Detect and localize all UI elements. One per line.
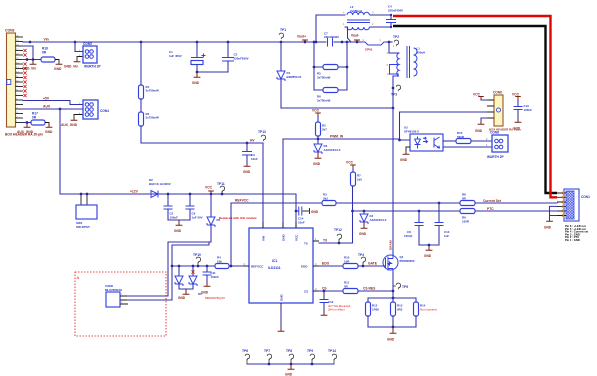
CON5 pin 1 circles [85, 50, 89, 54]
diode D2 [151, 191, 158, 198]
svg-text:TP14: TP14 [328, 349, 336, 353]
svg-text:TP13: TP13 [258, 130, 266, 134]
svg-text:TP1: TP1 [280, 28, 286, 32]
CON3 no-connect X marks [23, 49, 26, 52]
node junction (347,67) [346, 66, 349, 69]
svg-text:GND: GND [285, 373, 293, 376]
node junction (419,211) [418, 210, 421, 213]
power AUX_GND symbol at R17 input [26, 123, 28, 125]
svg-text:AUX_GND: AUX_GND [17, 130, 34, 134]
svg-text:VCC: VCC [312, 109, 320, 113]
node junction (198,266) [197, 265, 200, 268]
resistor R14 (vertical) [415, 298, 417, 302]
IC pin stubs [243, 222, 319, 309]
resistor loop right vertical wire [346, 42, 348, 90]
svg-text:REFVCC: REFVCC [235, 199, 249, 203]
ground at C11 [204, 283, 211, 286]
svg-text:TP9: TP9 [307, 349, 313, 353]
svg-text:GND: GND [475, 129, 483, 133]
node junction (291,364) [290, 363, 293, 366]
svg-text:TP12: TP12 [334, 228, 342, 232]
svg-text:AUX_GND: AUX_GND [61, 123, 78, 127]
wire D5 to REFVCC row [210, 225, 212, 242]
wire L2 pin2 to C4 bottom [370, 26, 391, 28]
ground at U2 [403, 151, 410, 154]
IC1 GND pin wire [280, 309, 282, 328]
node junction (247,143) [246, 142, 249, 145]
resistor R9 inline [460, 209, 475, 214]
svg-text:TP5: TP5 [402, 285, 408, 289]
svg-text:GND: GND [313, 162, 321, 166]
connector CON8 [492, 135, 508, 152]
wire C5 C6 ground link [168, 219, 190, 221]
svg-text:GND: GND [280, 294, 284, 302]
optocoupler U2 [410, 134, 443, 151]
wire CS from IC [319, 290, 343, 292]
resistor R8 inline [460, 201, 475, 206]
ground at TP row [290, 364, 292, 366]
resistor R13 (vertical) [392, 298, 394, 302]
svg-text:1k0: 1k0 [357, 177, 362, 181]
svg-text:VCC: VCC [473, 93, 481, 97]
node junction (87,194) [86, 193, 89, 196]
wire opto feed from PWM corner [400, 112, 411, 140]
wire CON1 GND bracket pins 1,3 [550, 206, 558, 218]
resistor R6 [323, 88, 338, 93]
CON5 pin2 to ground [77, 57, 83, 59]
transistor Q1 MOSFET [383, 255, 398, 270]
node junction (141,42) [140, 41, 143, 44]
svg-text:600uH: 600uH [417, 50, 426, 54]
connector CON2 body [106, 292, 120, 307]
connector CON4 [83, 100, 98, 119]
svg-text:GND_Vin: GND_Vin [22, 67, 36, 71]
wire R16 input row [23, 59, 41, 61]
resistor R2a 2k7 (vertical) [317, 116, 319, 122]
svg-text:GATE: GATE [368, 262, 378, 266]
svg-text:GND: GND [243, 170, 251, 174]
svg-text:EDO: EDO [322, 262, 330, 266]
svg-text:TP8: TP8 [286, 349, 292, 353]
node junction (357,42) [356, 41, 359, 44]
svg-text:GND: GND [311, 210, 319, 214]
CON4 pin 2 circles [85, 108, 89, 112]
diode D6a zener [178, 266, 180, 276]
svg-text:Not mounted: Not mounted [420, 307, 437, 311]
wire thick red LED+ output [393, 16, 557, 197]
L1 core lines [407, 46, 410, 78]
wire L2 pin1 to rail [345, 27, 351, 42]
wire pin3 down-link [23, 46, 33, 60]
svg-text:GND: GND [387, 338, 395, 342]
CON4 pin 1 circles [85, 103, 89, 107]
diode D3 zener [317, 139, 319, 144]
wire D6 ground link [179, 284, 193, 289]
svg-text:+12V: +12V [130, 190, 139, 194]
connector CON6 body [494, 95, 503, 126]
test point TP2 [394, 40, 399, 46]
capacitor C8 [418, 211, 420, 222]
test point TP10 [196, 257, 201, 263]
svg-text:3x750mW: 3x750mW [317, 98, 331, 102]
svg-text:Vout+: Vout+ [297, 35, 306, 39]
node junction (393,108) [392, 107, 395, 110]
svg-text:DRAIN: DRAIN [389, 239, 393, 250]
wire top Vin rail [23, 41, 362, 43]
node junction (312,364) [311, 363, 314, 366]
resistor R16 [41, 57, 55, 62]
svg-text:VCC: VCC [295, 234, 299, 241]
wire CP01 to transformer node [387, 41, 392, 43]
CON1 pin description text [565, 224, 588, 242]
svg-text:REFVCC: REFVCC [251, 265, 264, 269]
svg-text:2k4 no effect: 2k4 no effect [328, 308, 345, 312]
wire pin20 to R17 [23, 122, 31, 124]
wire REFVCC pin row [172, 265, 243, 267]
CON4 pin3 to AUX_GND [74, 115, 83, 118]
svg-text:GND: GND [400, 158, 408, 162]
wire AUX pin17 to CON4 pin2 [23, 108, 83, 110]
svg-text:100nF: 100nF [404, 234, 413, 238]
CON3 pin stubs (pins 1-20) [16, 37, 24, 123]
test point TP4 [361, 257, 366, 263]
test point TP5 [396, 283, 401, 289]
resistor R7 pullup (vertical) [352, 168, 354, 172]
ground at C8/C13 [428, 245, 430, 247]
test point TP3 [396, 85, 401, 91]
svg-text:WURTH 2P: WURTH 2P [487, 155, 505, 159]
capacitor C7 inline [328, 38, 333, 47]
svg-text:100R: 100R [462, 219, 470, 223]
test point TP11 [220, 186, 225, 192]
node junction (296,211) [295, 210, 298, 213]
wire TX/PTC line [353, 210, 557, 212]
svg-text:10nF: 10nF [251, 157, 258, 161]
svg-text:CON3: CON3 [5, 29, 15, 33]
L1 winding taps [390, 65, 400, 77]
connector CON5 [83, 46, 97, 63]
capacitor C13 [438, 203, 440, 222]
CON6 pin stubs [487, 100, 494, 118]
test point TP7 [267, 354, 272, 360]
svg-text:SFH6156-3: SFH6156-3 [404, 129, 419, 133]
svg-text:CON6: CON6 [493, 91, 502, 95]
wire REFVCC / Current Set line [231, 202, 557, 204]
node junction (281,42) [280, 41, 283, 44]
svg-text:560R: 560R [457, 135, 465, 139]
node junction (314,42) [313, 41, 316, 44]
node junction (318,139) [317, 138, 320, 141]
svg-text:Vin: Vin [44, 38, 49, 42]
svg-text:MLX2656/3G: MLX2656/3G [105, 288, 123, 292]
svg-text:100nF: 100nF [524, 108, 533, 112]
node junction (33,59.5) [32, 58, 35, 61]
node junction (324,291) [323, 290, 326, 293]
node junction (393,298) [392, 297, 395, 300]
test point TP8 [289, 354, 294, 360]
wire R15 to CON8 pin2 [471, 140, 492, 142]
ground at D4 [363, 222, 365, 225]
L1 right winding [414, 48, 418, 76]
U2 cathode to ground [406, 147, 410, 151]
ground at C1/C2 [196, 72, 198, 74]
svg-text:3x750mW: 3x750mW [146, 89, 160, 93]
capacitor C3 [246, 143, 248, 152]
svg-text:GND: GND [45, 130, 53, 134]
capacitor C2 [227, 42, 229, 58]
svg-text:GND: GND [513, 127, 521, 131]
ground at IC1 [278, 328, 285, 331]
svg-text:BZM55C15: BZM55C15 [287, 75, 302, 79]
svg-text:AUX: AUX [43, 105, 51, 109]
svg-text:GND: GND [544, 226, 552, 230]
wire rail drop to CON5 pin1 [75, 42, 83, 52]
wire +5V pin15 to CON4 pin1 [23, 101, 83, 105]
wire CON2 line A [127, 242, 211, 296]
svg-text:VIN: VIN [262, 236, 266, 241]
svg-text:0R: 0R [32, 116, 37, 120]
capacitor C6 [189, 194, 191, 206]
L2 core lines [347, 20, 370, 23]
svg-text:BGF1S 1A/400V: BGF1S 1A/400V [149, 182, 171, 186]
ground at C5/C6 [178, 220, 180, 222]
svg-text:1nF: 1nF [444, 234, 449, 238]
capacitor C4 [386, 20, 396, 23]
svg-text:IPD60R360: IPD60R360 [400, 259, 415, 263]
svg-text:VCC: VCC [346, 161, 354, 165]
svg-text:TX: TX [304, 242, 308, 246]
wire sense resistor rail top [368, 297, 416, 299]
node junction (305,42) [304, 41, 307, 44]
CON2 pin stubs [120, 296, 128, 304]
svg-text:MRD06V6QUO: MRD06V6QUO [205, 296, 226, 300]
CON5 pin 2 circles [85, 55, 89, 59]
wire R17 to ground [45, 123, 49, 125]
wire Q1 source down [392, 272, 394, 298]
svg-text:Pin 1 : GND: Pin 1 : GND [565, 238, 580, 242]
ground at C3 [244, 163, 251, 166]
resistor R4 inline [215, 264, 229, 269]
wire drain vertical [392, 108, 394, 255]
test point TP13 [261, 135, 266, 141]
resistor R3 inline [322, 201, 336, 206]
wire EDO from IC [319, 265, 343, 267]
svg-text:CS RES: CS RES [363, 287, 376, 291]
current probe CP01 loop [362, 42, 387, 45]
wire PWM to IC pin [282, 139, 284, 228]
CON4 pin 3 circles [85, 113, 89, 117]
node junction (228,42) [227, 41, 230, 44]
ground at R16 [56, 61, 63, 64]
svg-text:GND: GND [192, 81, 200, 85]
resistor R15 [456, 139, 471, 144]
connector CON1 outer body [564, 189, 579, 221]
ground at C12 [321, 312, 328, 315]
wire U2 emitter to CON8 pin1 [443, 146, 492, 148]
svg-text:TP11: TP11 [217, 182, 225, 186]
power GND_Vin symbol at CON5 [74, 59, 81, 62]
svg-text:VCC: VCC [205, 186, 213, 190]
node junction (269,364) [268, 363, 271, 366]
node junction (172,266) [171, 265, 174, 268]
svg-text:TP3: TP3 [391, 93, 397, 97]
svg-text:1uF 50V: 1uF 50V [192, 215, 203, 219]
svg-text:GND_Vin: GND_Vin [64, 65, 78, 69]
wire gate line [358, 265, 385, 267]
diode D5 zener [210, 194, 212, 217]
svg-text:PTC: PTC [487, 207, 494, 211]
wire U2 collector to R15 [443, 140, 456, 142]
wire CON6 pin3 line [400, 111, 488, 113]
svg-text:220nF450V: 220nF450V [388, 8, 403, 12]
wire C8 C13 ground link [419, 244, 439, 246]
node junction (353,211) [351, 210, 354, 213]
test point row wire [247, 363, 334, 365]
resistor R2 (vertical) [139, 112, 144, 126]
switch SW1 body [76, 205, 97, 219]
svg-text:VCC: VCC [512, 93, 520, 97]
node junction (429,245) [428, 244, 431, 247]
node junction (190,194) [189, 193, 192, 196]
svg-text:CON4: CON4 [100, 109, 109, 113]
wire VCC rail from switch [60, 194, 296, 228]
svg-text:1uF 450V: 1uF 450V [169, 54, 182, 58]
CON6 pin4 to ground [481, 118, 487, 121]
svg-text:3x750mW: 3x750mW [146, 116, 160, 120]
wire L1 bottom to drain line [392, 76, 394, 108]
svg-text:1R00: 1R00 [372, 307, 379, 311]
wire D1 bottom to drain line [281, 107, 393, 109]
switch SW1 pins [81, 194, 87, 205]
CON1 pin stubs [557, 193, 566, 216]
resistor R10 [343, 264, 358, 269]
node junction (168,194) [167, 193, 170, 196]
CON8 pin 1 circles [495, 145, 499, 149]
wire R16 to ground [55, 60, 59, 62]
svg-text:Vout-: Vout- [351, 34, 359, 38]
svg-text:0R: 0R [42, 51, 47, 55]
CON1 hatched insert [566, 191, 574, 219]
svg-text:2k2: 2k2 [323, 196, 328, 200]
svg-text:CON5: CON5 [83, 42, 92, 46]
wire L2 pin3 to C4 [370, 14, 391, 16]
wire thick black LED- output [393, 26, 557, 193]
svg-text:SW-DPST: SW-DPST [76, 225, 90, 229]
svg-text:220nF630V: 220nF630V [234, 56, 249, 60]
svg-text:EDO: EDO [301, 265, 308, 269]
svg-text:GND: GND [178, 296, 186, 300]
node junction (393,88) [392, 87, 395, 90]
wire Vin pin2 to top rail [23, 41, 30, 43]
svg-text:+5V: +5V [43, 97, 50, 101]
wire TX from IC [319, 212, 353, 244]
svg-text:2x680uH: 2x680uH [350, 9, 362, 13]
diode D1 zener [280, 42, 282, 71]
node junction (314,67) [313, 66, 316, 69]
svg-text:GND: GND [201, 291, 209, 295]
node junction (391,27) [390, 26, 392, 28]
wire AUX down to switch rail [59, 109, 61, 194]
ground at CON1 [546, 218, 553, 221]
diode D4 zener [363, 211, 365, 214]
svg-text:3x750mW: 3x750mW [317, 75, 331, 79]
CON8 pin 2 circles [495, 139, 499, 143]
node junction (342,42) [341, 41, 344, 44]
inductor L2 common mode choke [316, 15, 345, 42]
node junction (231,266) [230, 265, 233, 268]
no-connect X on D6b [191, 270, 194, 273]
node junction (339,243) [338, 242, 341, 245]
connector CON3 body [7, 33, 16, 127]
resistor R11 [343, 289, 358, 294]
test point TP6 [245, 354, 250, 360]
svg-text:GND: GND [174, 229, 182, 233]
capacitor C11 [206, 266, 208, 272]
power AUX_GND symbol at CON4 [71, 117, 78, 120]
svg-text:TP10: TP10 [193, 253, 201, 257]
svg-text:TP7: TP7 [264, 349, 270, 353]
node junction (393,291) [392, 290, 395, 293]
svg-text:AZ23C3V3-Z: AZ23C3V3-Z [324, 148, 341, 152]
svg-text:GND: GND [54, 67, 62, 71]
resistor R1 (vertical) [140, 42, 142, 85]
test point TP14 [332, 354, 337, 360]
svg-text:Current Set: Current Set [483, 199, 502, 203]
node junction (393,327) [392, 326, 395, 329]
capacitor C14 [296, 210, 298, 212]
node junction (399.5,140) [398, 139, 401, 142]
power bar at C14 [309, 208, 311, 214]
svg-text:TP6: TP6 [242, 349, 248, 353]
svg-text:WURTH 2P: WURTH 2P [84, 65, 102, 69]
svg-text:PWM_IN: PWM_IN [330, 135, 344, 139]
diode D6b zener (not mounted) [192, 266, 194, 276]
CON6 polarization notch [497, 108, 501, 112]
IC U1 ILD2111 body [249, 228, 313, 303]
capacitor C10 [517, 100, 519, 107]
svg-text:220nF630V: 220nF630V [324, 35, 339, 39]
svg-text:CON1: CON1 [581, 195, 590, 199]
svg-text:AZ23C3V3-Z: AZ23C3V3-Z [370, 218, 387, 222]
svg-text:HV: HV [250, 139, 255, 143]
svg-text:100nF: 100nF [170, 215, 179, 219]
node junction (193,266) [192, 265, 195, 268]
power port VCC at CON6 [481, 99, 487, 102]
svg-text:TP4: TP4 [358, 253, 364, 257]
node junction (27,59.5) [26, 58, 29, 61]
test point TP9 [310, 354, 315, 360]
wire PWM_IN line [283, 139, 400, 140]
svg-text:TP2: TP2 [393, 35, 399, 39]
wire CON2 line B [127, 243, 209, 301]
test point TP1 [279, 33, 284, 39]
svg-text:10k: 10k [217, 259, 222, 263]
ground at C10 [515, 119, 522, 122]
ground at CON6 [478, 121, 485, 124]
node junction (207,266) [206, 265, 209, 268]
node junction (197,72) [196, 71, 199, 74]
resistor R17 [31, 120, 45, 125]
transformer L1 primary feed [389, 42, 399, 53]
power GND_Vin symbol under junction [32, 60, 34, 62]
CON3 polarization notch [7, 80, 11, 85]
wire sense resistor rail bottom [368, 326, 416, 328]
svg-text:2k7: 2k7 [322, 127, 327, 131]
node junction (27,122.5) [26, 121, 29, 124]
capacitor C5 [167, 194, 169, 206]
svg-text:ILD2111: ILD2111 [268, 266, 281, 270]
node junction (222,194) [221, 193, 224, 196]
